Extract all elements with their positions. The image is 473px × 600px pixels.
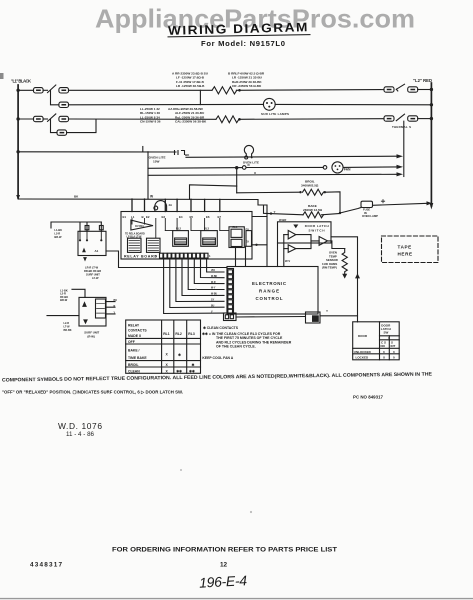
node junction row3 left	[16, 117, 19, 120]
wire fan to vertical	[343, 166, 397, 169]
svg-text:FOR ORDERING INFORMATION REFER: FOR ORDERING INFORMATION REFER TO PARTS …	[112, 547, 337, 554]
wire fan line mid	[246, 166, 323, 168]
svg-text:SW: SW	[384, 330, 389, 334]
node junction	[16, 150, 19, 153]
wire row3	[18, 118, 33, 120]
label ELECTRONIC RANGE CONTROL	[252, 281, 287, 301]
svg-text:LR -1250W 36.5Ω-B: LR -1250W 36.5Ω-B	[176, 84, 205, 88]
svg-text:✱: ✱	[192, 363, 195, 367]
svg-text:RL1: RL1	[163, 332, 170, 336]
svg-text:OVEN LITE: OVEN LITE	[243, 161, 259, 165]
wire fan line	[148, 167, 242, 170]
svg-text:BR-W: BR-W	[60, 298, 68, 302]
svg-text:X: X	[383, 356, 385, 360]
wire row3 to right	[239, 118, 384, 121]
wire nest to ERC	[266, 245, 268, 267]
relay RL1 group	[229, 227, 244, 248]
jumper arch E2-E3	[155, 201, 167, 212]
wire staircase to bake	[258, 200, 267, 206]
wire drop row1 to row2	[51, 90, 59, 105]
wire broil feed vertical	[236, 168, 238, 193]
svg-text:LF-W: LF-W	[92, 276, 99, 280]
svg-text:OFF: OFF	[128, 340, 135, 344]
heating element BAKE (resistor)	[303, 212, 323, 218]
relay RLA box	[128, 238, 142, 252]
svg-text:✱✱: ✱✱	[176, 369, 182, 373]
svg-text:VIO: VIO	[211, 270, 215, 272]
wire row3 run	[69, 118, 217, 120]
bottom scan edge	[0, 598, 473, 600]
ERC bottom connector	[224, 313, 237, 321]
label element table B	[228, 72, 265, 89]
arrow into vertical	[397, 172, 404, 176]
label feed wires 1	[54, 228, 62, 239]
wire ERC to latch	[236, 316, 305, 319]
door latch plunger box	[306, 312, 321, 323]
wire broil line	[237, 191, 301, 194]
terminal T3E	[57, 130, 67, 135]
svg-text:1: 1	[209, 254, 211, 258]
svg-text:15W: 15W	[153, 159, 159, 163]
relay board connector strip	[160, 253, 209, 258]
svg-text:X: X	[254, 171, 256, 175]
svg-text:CONTROL: CONTROL	[256, 296, 283, 301]
terminal T3C	[384, 116, 394, 121]
svg-text:CONTACTS: CONTACTS	[128, 329, 147, 333]
svg-text:FAN: FAN	[344, 168, 351, 172]
svg-text:0: 0	[393, 350, 395, 354]
mark plus	[381, 200, 384, 203]
label feed wires 2	[60, 289, 68, 303]
lamp oven light bulb	[244, 145, 253, 157]
svg-text:✱✱: ✱✱	[189, 369, 195, 373]
svg-text:LOCKED: LOCKED	[356, 356, 370, 360]
svg-text:0: 0	[393, 356, 395, 360]
wire to L2 bus	[418, 89, 432, 91]
svg-text:L1-BK: L1-BK	[54, 228, 62, 232]
label surf2 lower wires	[64, 322, 72, 332]
node junction	[430, 117, 433, 120]
svg-text:2600W 13.5Ω: 2600W 13.5Ω	[303, 208, 323, 212]
svg-text:CLEAN: CLEAN	[128, 369, 140, 373]
arrow down sensor	[342, 274, 347, 279]
svg-text:0: 0	[383, 350, 385, 354]
arrow up inside	[82, 248, 86, 253]
wire fuse to bus	[373, 203, 428, 205]
surf control box 1	[78, 231, 106, 255]
svg-text:3400W/2.5Ω: 3400W/2.5Ω	[301, 184, 319, 188]
relay contact table	[126, 320, 201, 373]
wire right drop from thermal switch	[403, 121, 405, 176]
ERC box	[227, 267, 318, 315]
svg-text:X: X	[166, 353, 169, 357]
svg-text:RELAY: RELAY	[128, 323, 140, 327]
switch SW2 blade	[396, 84, 404, 89]
svg-text:X: X	[166, 363, 169, 367]
svg-text:CN-150W 8 36: CN-150W 8 36	[140, 120, 161, 124]
svg-text:W-Y: W-Y	[211, 288, 216, 290]
svg-text:BR-BK: BR-BK	[64, 329, 72, 332]
label out wires	[114, 299, 118, 314]
connector circle	[242, 166, 246, 170]
TAPE HERE box	[382, 236, 439, 263]
lamp: surface indicator lamps	[263, 98, 275, 110]
terminal square	[99, 226, 103, 230]
svg-text:RL3: RL3	[188, 332, 195, 336]
terminal T1B	[59, 88, 69, 93]
svg-text:"L1" BLACK: "L1" BLACK	[11, 79, 31, 84]
svg-text:E4: E4	[179, 215, 183, 219]
arrow down below	[83, 257, 87, 261]
svg-text:RL2: RL2	[175, 332, 182, 336]
svg-text:DOOR: DOOR	[358, 334, 368, 338]
wire X line	[148, 174, 397, 175]
svg-text:SURF UNIT: SURF UNIT	[86, 273, 100, 277]
svg-text:OF THE CLEAN CYCLE.: OF THE CLEAN CYCLE.	[216, 345, 256, 349]
wire L2 bus	[430, 83, 432, 206]
wire row2 run	[69, 103, 264, 105]
wire broil to corner	[326, 192, 340, 213]
label element table A	[172, 72, 209, 89]
svg-text:TIME BAKE: TIME BAKE	[128, 356, 147, 360]
wire oven-lite run (right)	[186, 156, 397, 157]
svg-text:E7: E7	[218, 215, 222, 219]
wire	[43, 118, 47, 120]
svg-text:OV REL: OV REL	[135, 225, 145, 228]
arrow into vertical	[397, 165, 404, 169]
svg-text:E5: E5	[190, 215, 194, 219]
arrow up on DLS line	[355, 273, 360, 278]
terminal box E10	[246, 231, 252, 247]
svg-text:R: R	[114, 305, 116, 308]
wire bake to fuse	[322, 214, 341, 215]
svg-text:X: X	[166, 369, 169, 373]
scan speck	[250, 511, 252, 513]
svg-text:NO: NO	[381, 344, 386, 348]
svg-text:RL3: RL3	[204, 227, 209, 231]
wire T1 input	[284, 234, 288, 236]
svg-text:BK: BK	[185, 153, 190, 157]
svg-text:TAPE: TAPE	[398, 245, 412, 250]
arrow down mark	[293, 225, 298, 229]
svg-text:CR -2350W 56 Ω-BK: CR -2350W 56 Ω-BK	[232, 84, 262, 88]
switch SW1 blade	[48, 85, 56, 93]
svg-text:12: 12	[220, 562, 228, 569]
wire T2 input riser	[283, 235, 285, 267]
svg-text:UNLOCKED: UNLOCKED	[354, 350, 372, 354]
svg-text:E2: E2	[146, 215, 150, 219]
wire stub below box	[277, 243, 279, 267]
svg-text:196-E-4: 196-E-4	[199, 572, 248, 591]
svg-text:11 - 4 - 86: 11 - 4 - 86	[66, 431, 95, 438]
buffer triangle 1	[288, 230, 296, 239]
door latch table	[353, 322, 400, 360]
label bundle wire colors	[211, 270, 218, 313]
wire drops into surf box 1	[80, 222, 101, 231]
node junction	[430, 88, 433, 91]
label element table C	[140, 107, 161, 124]
terminal T3B	[59, 116, 69, 121]
svg-text:L1: L1	[131, 215, 135, 219]
node junction	[238, 89, 241, 92]
terminal letter marks	[37, 90, 415, 133]
door latch switch box	[278, 222, 332, 243]
svg-text:RELAY BOARD: RELAY BOARD	[124, 255, 157, 259]
svg-text:SUR LITE LAMPS: SUR LITE LAMPS	[261, 112, 289, 116]
node junction	[299, 191, 301, 193]
switch SW4 blade	[396, 114, 404, 121]
fuse oven lamp	[361, 201, 373, 207]
node junction	[430, 103, 433, 106]
wire T2 out	[296, 241, 311, 249]
wire line4	[190, 185, 237, 199]
svg-text:W: W	[150, 195, 154, 199]
svg-text:E6: E6	[206, 215, 210, 219]
svg-text:Y: Y	[326, 309, 328, 313]
surface element E2 (resistor)	[216, 116, 239, 123]
wire drop row3 to row3b	[51, 119, 58, 133]
wire feed surf 2	[72, 289, 85, 297]
svg-text:RL2: RL2	[176, 227, 181, 231]
svg-text:PC NO 849317: PC NO 849317	[353, 395, 384, 400]
arrow up inside	[82, 301, 87, 307]
svg-text:W-BK: W-BK	[211, 276, 218, 278]
terminal T3D	[408, 116, 418, 121]
gate triangle 3	[319, 237, 327, 246]
svg-text:A1: A1	[95, 249, 99, 253]
scan edge mark	[0, 73, 4, 79]
svg-text:Y: Y	[274, 210, 276, 214]
node junction	[235, 166, 238, 169]
node junction	[238, 118, 241, 121]
svg-text:RR-BK RF-BR: RR-BK RF-BR	[84, 269, 101, 273]
svg-text:L2-R: L2-R	[54, 232, 60, 236]
terminal T1A	[34, 88, 44, 93]
wire	[43, 89, 47, 91]
wire latch to door table	[320, 315, 358, 317]
wire board right to ERC drops	[236, 246, 246, 266]
relay RL3 box	[201, 231, 218, 247]
terminal T1C	[384, 87, 394, 92]
legend clean cycle note	[202, 332, 292, 349]
svg-text:"OFF" OR "RELAXED" POSITION. ▢: "OFF" OR "RELAXED" POSITION. ▢INDICATES …	[2, 390, 183, 395]
surface unit 1 feed hook	[51, 222, 101, 228]
wire T3 out to sensor	[328, 241, 345, 249]
svg-text:W-V: W-V	[285, 259, 290, 263]
buffer triangle 2	[288, 245, 296, 253]
svg-text:LR-R LT-W: LR-R LT-W	[85, 266, 99, 270]
wire to DLS vertical	[331, 237, 358, 322]
svg-text:✱ CLEAN CONTACTS: ✱ CLEAN CONTACTS	[203, 326, 239, 330]
surf control box 2	[79, 297, 106, 326]
node junction	[324, 191, 326, 193]
svg-text:BK: BK	[74, 195, 79, 199]
wire T1 out to T3	[296, 235, 319, 241]
relay RLB box	[147, 238, 161, 252]
scan speck	[195, 288, 197, 290]
wire oven-lite feed (left)	[18, 151, 176, 153]
wire to L2 bus	[418, 118, 432, 120]
svg-text:W-R: W-R	[211, 282, 216, 284]
note line 1	[2, 371, 433, 383]
relay board outline	[121, 212, 252, 260]
wire relay board feed drops	[132, 199, 220, 212]
svg-text:BR-W: BR-W	[54, 235, 62, 239]
svg-text:BU: BU	[211, 305, 215, 307]
relay board internal wiring	[132, 219, 220, 239]
title WIRING DIAGRAM	[168, 20, 309, 38]
wire tap for fan line	[147, 152, 149, 199]
wire L1 bus	[17, 85, 19, 198]
wire board exit right	[252, 216, 267, 218]
node Y junction	[270, 212, 272, 214]
relay stack inside surf box 2	[96, 299, 106, 318]
svg-text:KEEP COOL FAN A: KEEP COOL FAN A	[202, 356, 233, 360]
wire row3b	[67, 120, 96, 133]
svg-text:GY: GY	[211, 300, 215, 302]
svg-text:ELECTRONIC: ELECTRONIC	[252, 281, 287, 286]
svg-text:BAKE /: BAKE /	[128, 349, 140, 353]
wire tap row1-row2	[199, 90, 201, 104]
svg-text:DOOR LATCH: DOOR LATCH	[305, 224, 329, 228]
arrow into vertical	[397, 154, 404, 158]
label element table D	[168, 107, 207, 124]
terminal square	[85, 226, 89, 230]
wire bake nest drop	[253, 205, 267, 245]
svg-text:✱: ✱	[178, 353, 181, 357]
oven temp sensor resistor	[342, 249, 347, 276]
wire white feed line	[18, 198, 258, 201]
svg-text:4348317: 4348317	[30, 562, 62, 569]
terminal T3A	[34, 116, 44, 121]
svg-text:(RM TEMP): (RM TEMP)	[322, 265, 337, 269]
relay board terminal labels	[123, 215, 222, 219]
svg-text:W-BU: W-BU	[211, 294, 218, 296]
arrow into bus	[427, 201, 433, 205]
wire row1 to right	[236, 89, 384, 92]
surface element E1 (resistor)	[212, 87, 237, 94]
node junction row1 left	[16, 89, 19, 92]
svg-text:OVEN LAMP: OVEN LAMP	[362, 214, 378, 218]
svg-text:MADE X: MADE X	[128, 334, 142, 338]
wire surf1 to board	[106, 251, 227, 268]
terminal T2A	[59, 102, 69, 107]
svg-text:CAL-2350W 56 38-BK: CAL-2350W 56 38-BK	[175, 120, 207, 124]
svg-text:HERE: HERE	[398, 251, 413, 256]
relay coil driver triangle	[131, 220, 153, 230]
wires out of surf box 2	[106, 302, 116, 314]
svg-text:BROIL: BROIL	[128, 363, 139, 367]
svg-text:COMPONENT SYMBOLS DO NOT REFLE: COMPONENT SYMBOLS DO NOT REFLECT TRUE CO…	[2, 371, 433, 383]
svg-text:INT: INT	[391, 344, 396, 348]
svg-text:B: B	[142, 215, 144, 219]
svg-text:RANGE: RANGE	[259, 289, 279, 294]
arrow down below surf2	[83, 319, 88, 324]
wire row1	[18, 89, 33, 91]
svg-text:For Model: N9157L0: For Model: N9157L0	[201, 39, 285, 48]
svg-text:E1: E1	[123, 215, 127, 219]
scan speck	[180, 469, 182, 471]
svg-text:(R-W): (R-W)	[87, 334, 95, 338]
stub tick	[142, 147, 144, 152]
svg-text:W.D. 1076: W.D. 1076	[58, 421, 102, 431]
motor FAN	[332, 162, 343, 173]
label surf unit 1 wires	[84, 266, 101, 281]
label board small text	[125, 233, 145, 239]
connector circle	[323, 166, 327, 170]
note line 2	[2, 390, 183, 395]
ERC connector strip	[227, 269, 234, 314]
svg-text:E3: E3	[162, 215, 166, 219]
svg-text:BK: BK	[114, 299, 118, 302]
oven temp sensor label	[322, 251, 338, 270]
wire row2 to bus	[275, 103, 431, 105]
wire row1 run	[69, 89, 213, 91]
svg-text:4A: 4A	[169, 203, 173, 207]
switch SW3 blade	[48, 114, 56, 122]
svg-text:SWITCH: SWITCH	[309, 229, 325, 233]
terminal T1D	[408, 87, 418, 92]
svg-text:"L2" RED: "L2" RED	[413, 78, 432, 83]
wire left into surf box 2	[47, 315, 79, 317]
wire bundle board to ERC	[164, 258, 224, 313]
svg-text:THERMAL S: THERMAL S	[392, 125, 411, 129]
connector plug pair	[175, 151, 185, 155]
heating element BROIL (resistor)	[303, 189, 324, 195]
relay RL2 box	[173, 231, 189, 247]
